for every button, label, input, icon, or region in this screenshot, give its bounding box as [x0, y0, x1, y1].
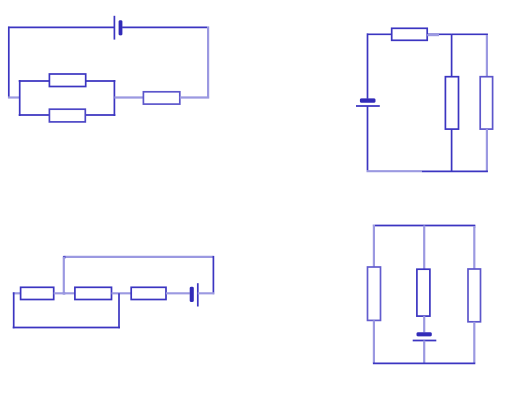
resistor R5 (middle vertical): [445, 77, 458, 129]
wire: C3 stub left of R7: [13, 292, 21, 294]
resistor R12 (right): [468, 269, 481, 322]
wire: C1 parallel box left vertical: [19, 80, 21, 116]
wire: C1 middle left of R3: [114, 96, 143, 98]
wire: C2 middle vertical below R5: [451, 129, 453, 172]
wire: C1 right vertical: [207, 26, 209, 98]
wire: C4 left vertical below R10: [373, 320, 375, 363]
wire: C3 top horizontal: [64, 256, 214, 258]
wire: C3 lower box bottom: [13, 327, 120, 329]
wire: C2 right vertical above R6: [486, 35, 488, 77]
wire: C4 middle vertical R11 to battery: [423, 316, 425, 332]
wire: C2 left vertical above battery: [367, 33, 369, 98]
wire: C1 parallel box right vertical: [113, 80, 115, 116]
wire: C3 segment R7-R8: [54, 292, 75, 294]
node: C3 riser/main-line junction dot: [63, 292, 66, 295]
wire: C2 right vertical below R6: [486, 129, 488, 172]
battery B4: [413, 332, 437, 340]
resistor R4 (top): [392, 28, 428, 40]
wire: C1 middle right of R3: [180, 96, 209, 98]
resistor R10 (left): [368, 267, 381, 320]
wire: C3 segment R8-R9: [112, 292, 132, 294]
wire: C2 top segment left of R4: [368, 33, 392, 35]
battery B1: [114, 16, 122, 40]
wire: C4 top right segment: [424, 225, 475, 227]
wire: C4 bottom horizontal: [373, 362, 475, 364]
wire: C4 middle vertical below battery: [423, 341, 425, 364]
wire: C2 middle vertical above R5: [451, 34, 453, 76]
wire: C2 left vertical below battery: [367, 106, 369, 172]
wire: C2 bottom left segment: [367, 170, 422, 172]
wire: C2 bottom right segment: [422, 170, 488, 172]
wire: C4 top left segment: [373, 225, 425, 227]
wire: C3 segment R9 to battery: [166, 292, 190, 294]
resistor R8: [75, 287, 112, 299]
wire: C1 top left segment: [9, 26, 115, 28]
wire: C4 left vertical above R10: [373, 225, 375, 268]
wire: C4 right vertical above R12: [473, 226, 475, 269]
wire: C4 middle vertical above R11: [423, 226, 425, 270]
battery B2: [356, 98, 380, 106]
resistor R7: [21, 287, 54, 299]
resistor R6 (right vertical): [480, 77, 492, 129]
wire: C4 top-right corner elbow: [474, 226, 476, 229]
wire: C1 left vertical: [8, 26, 10, 98]
wire: C1 top right segment: [122, 26, 208, 28]
resistor R3 (series): [143, 92, 179, 104]
resistor R9: [131, 287, 166, 299]
resistor R2 (bottom of parallel pair): [49, 109, 85, 122]
wire: C2 top segment junction to right corner: [452, 33, 488, 35]
battery B3: [190, 283, 198, 306]
wire: C4 right vertical below R12: [473, 322, 475, 364]
resistor R11 (middle): [417, 269, 430, 316]
node: C3 light loop corner dot: [63, 256, 66, 259]
wire: C3 segment battery to right vertical: [198, 292, 215, 294]
wire: C1 left node stub: [8, 96, 21, 98]
wire: C1 parallel box bottom: [19, 114, 116, 116]
wire: C2 top segment R4 to junction: [427, 33, 451, 35]
wire: C3 right vertical: [212, 256, 214, 294]
wire: C3 lower box right vertical: [118, 293, 120, 328]
wire: C2 lead stub right of R4 (light underlay): [427, 34, 439, 36]
wire: C2 top-right corner elbow: [486, 34, 488, 37]
wire: C3 left riser (to node R7/R8): [63, 257, 65, 294]
wire: C1 parallel box top: [19, 80, 116, 82]
resistor R1 (top of parallel pair): [49, 74, 85, 87]
wire: C3 lower box left vertical: [13, 292, 15, 328]
